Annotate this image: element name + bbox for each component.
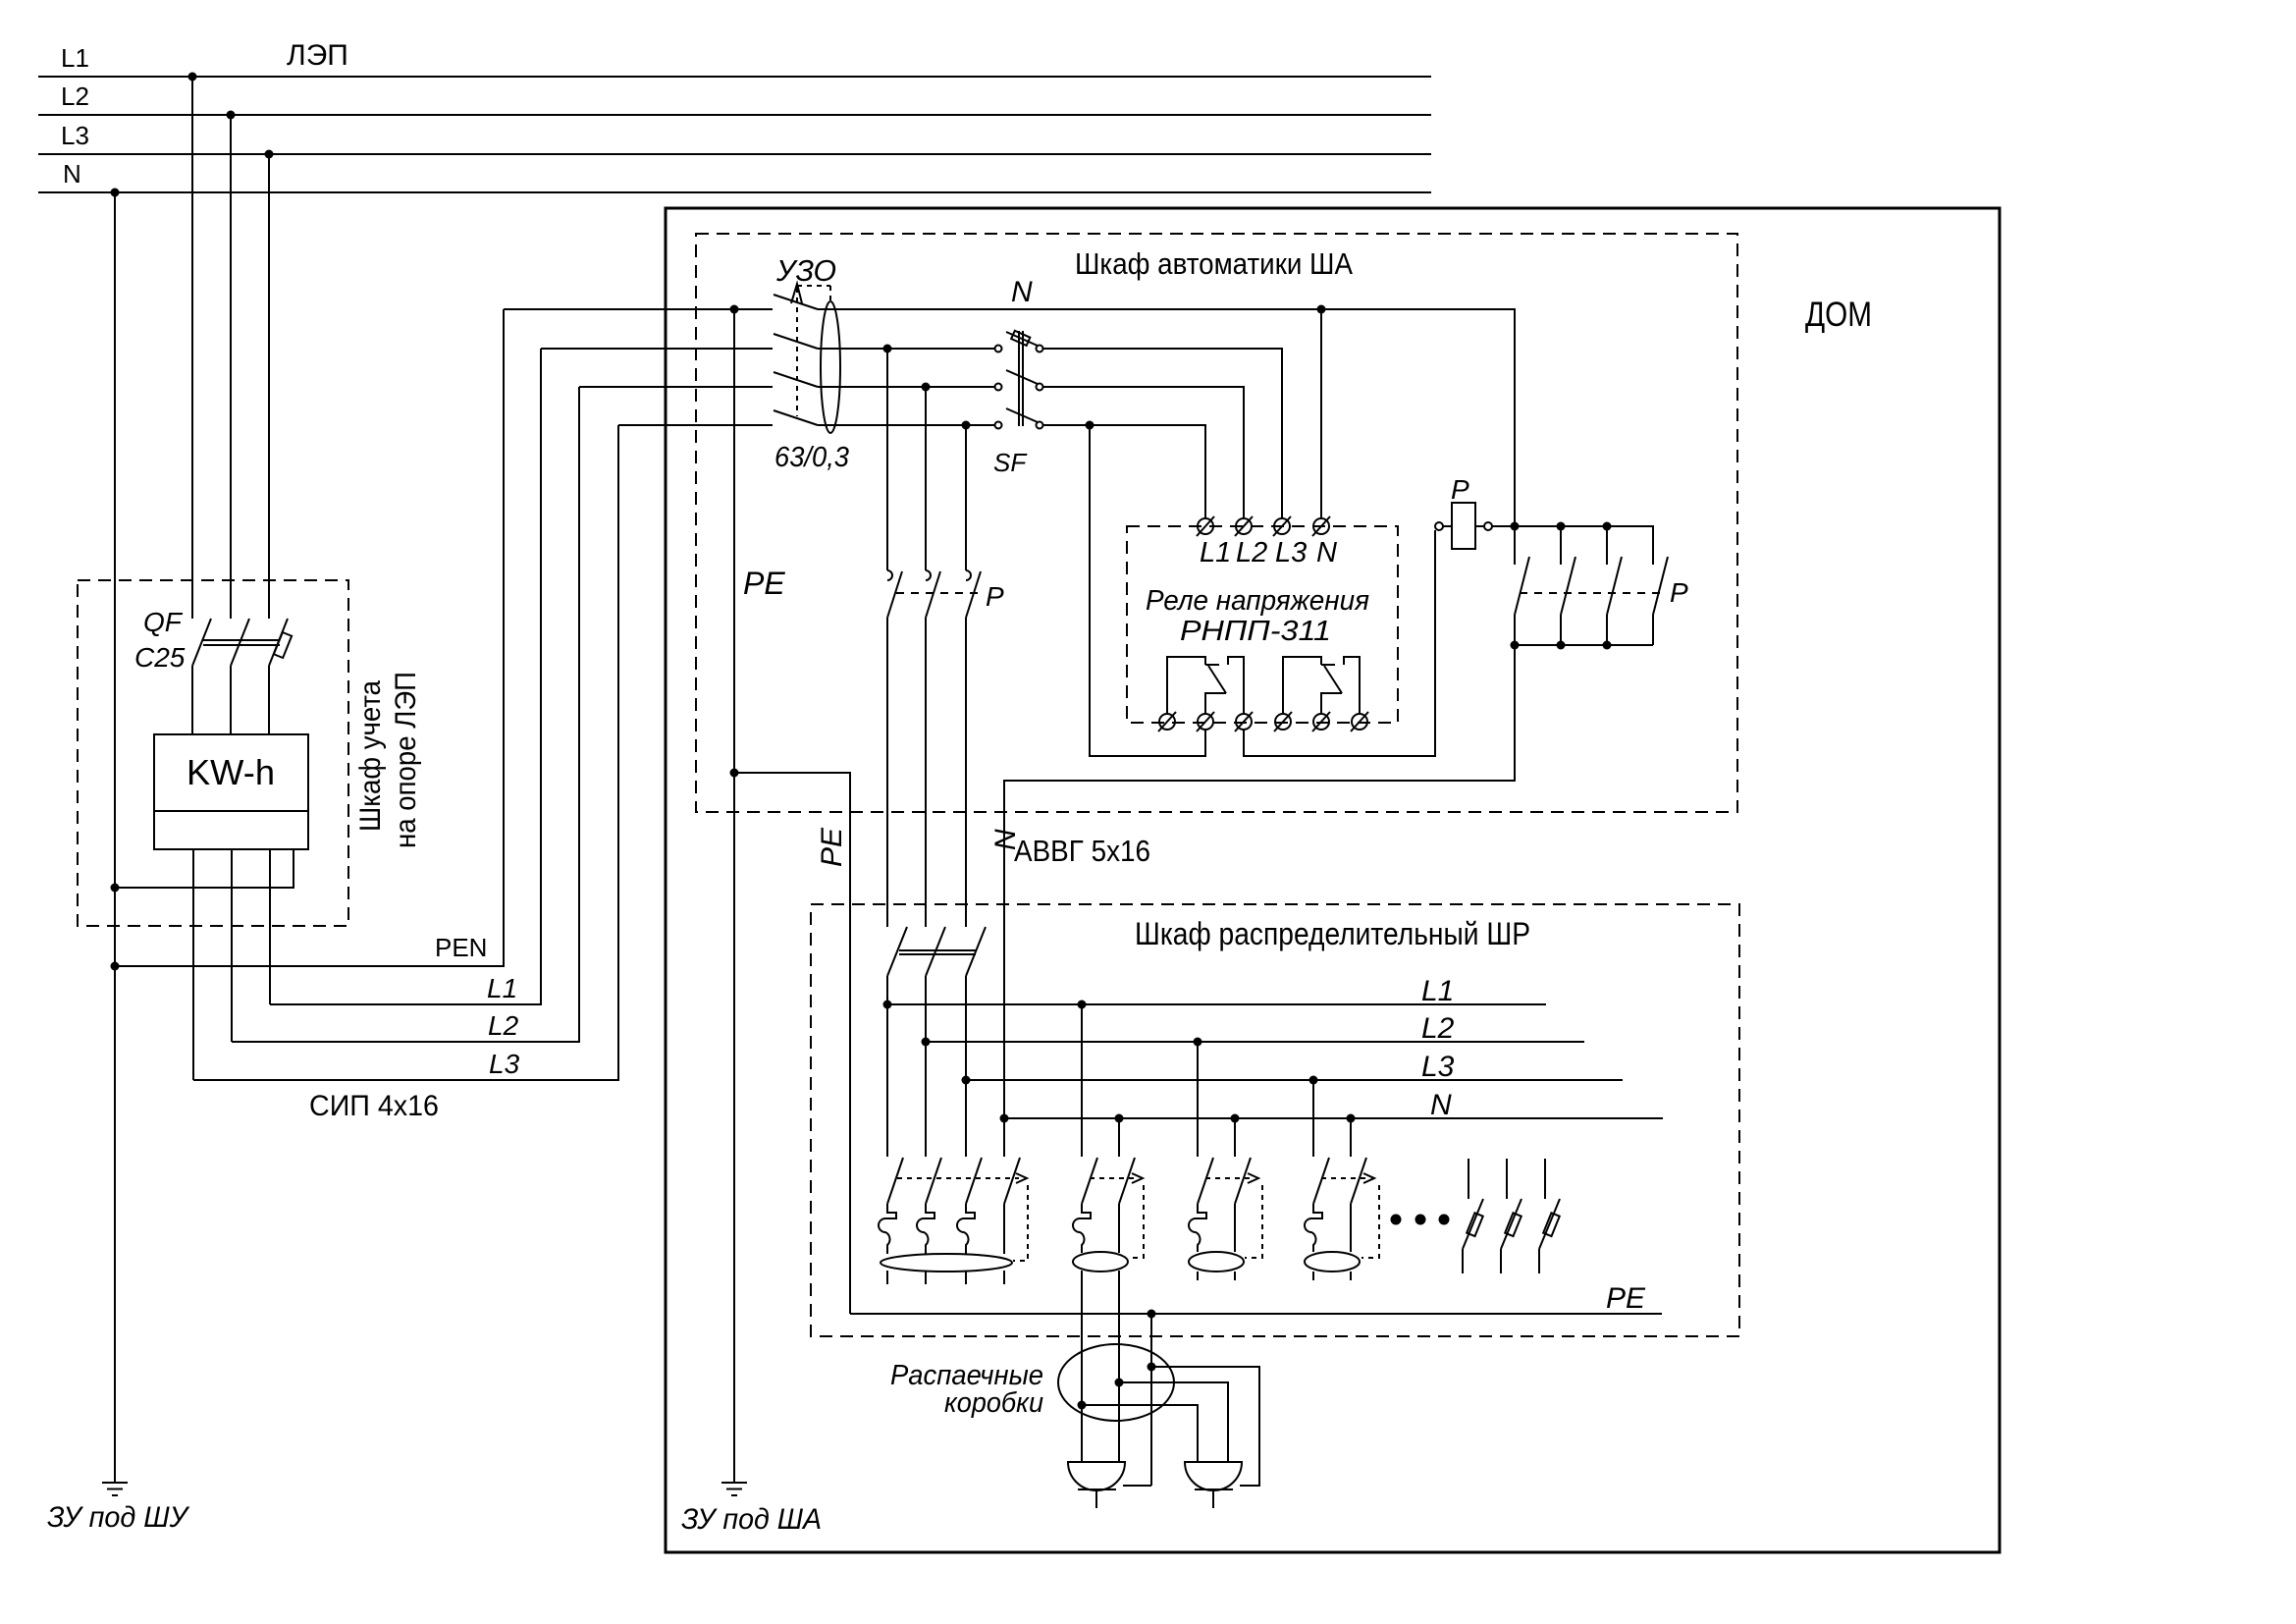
breaker QF2 pole1: [1073, 1004, 1097, 1253]
node L3 contact tap: [1086, 421, 1095, 430]
wire meter N stub: [115, 849, 294, 888]
wire QF pole2 to meter: [230, 666, 232, 734]
svg-text:коробки: коробки: [944, 1387, 1043, 1419]
wire lamp1 L feed: [1081, 1271, 1083, 1462]
svg-text:SF: SF: [993, 448, 1028, 477]
breaker QF2 trip dashed: [1090, 1177, 1135, 1179]
wire SF out L1: [1043, 349, 1282, 518]
RCD UZO pole4 blade: [774, 410, 818, 425]
RCD UZO pole2 blade: [774, 334, 818, 349]
terminal relay out 1: [1158, 712, 1176, 731]
relay RNPP-311 box: [1127, 526, 1398, 723]
breaker QF4 trip dashed: [1321, 1177, 1366, 1179]
switch SF pole1 left contact: [995, 346, 1002, 352]
wire meter out phase A: [192, 849, 194, 1080]
RCD UZO trip arrow: [791, 284, 802, 303]
RCD UZO toroid: [821, 301, 840, 433]
switch QS link bar: [899, 950, 976, 954]
svg-text:L2: L2: [1236, 537, 1267, 568]
terminal relay N top: [1312, 516, 1330, 536]
node L1 tap: [188, 73, 197, 81]
breaker QF3 pole2 N: [1235, 1118, 1251, 1280]
future switch 1: [1463, 1159, 1483, 1273]
breaker QF pole 1 blade: [192, 619, 211, 666]
contactor P contact 1: [1515, 526, 1529, 645]
wire L3 bypass lower: [965, 618, 967, 927]
svg-text:PEN: PEN: [435, 933, 487, 962]
wire L1 bypass vertical: [886, 349, 888, 570]
wire QF pole1 to meter: [191, 666, 193, 734]
wire L3 bypass vertical: [965, 425, 967, 570]
breaker QF4 trip arrow: [1363, 1173, 1374, 1183]
contactor coil P right terminal: [1484, 522, 1492, 530]
wire relay out3 to coil: [1244, 530, 1435, 756]
wire N to contactor: [1321, 309, 1515, 526]
svg-text:QF: QF: [143, 607, 184, 637]
bypass switch P pole2 blade: [926, 571, 940, 618]
wire N to relay terminal: [1320, 309, 1322, 518]
breaker QF4 pole2 N: [1351, 1118, 1366, 1280]
node contactor top 3: [1603, 522, 1612, 531]
switch SF pole3 right contact: [1037, 422, 1043, 429]
breaker QF link bar: [203, 640, 280, 645]
breaker QF2 trip arrow: [1132, 1173, 1143, 1183]
wire N feed to ShR: [1004, 645, 1515, 1118]
node junction L: [1078, 1401, 1087, 1410]
node contactor bottom 3: [1603, 641, 1612, 650]
breaker QF1 trip box dashed: [1013, 1185, 1028, 1261]
node bus N tap group2: [1115, 1114, 1124, 1123]
relay contact K1 common: [1205, 693, 1226, 714]
wire coil right lead: [1475, 525, 1484, 527]
relay contact K2 NO bracket: [1344, 657, 1360, 714]
node junction N: [1115, 1379, 1124, 1387]
breaker QF pole 3 blade: [269, 619, 288, 666]
terminal relay out 4: [1274, 712, 1292, 731]
breaker QF2 coil ellipse: [1073, 1252, 1128, 1272]
wire UZO input L1: [541, 348, 773, 350]
bypass switch P pole2 fixed contact: [926, 570, 931, 580]
svg-text:Шкаф учета: Шкаф учета: [354, 680, 387, 832]
node bus N left: [1000, 1114, 1009, 1123]
switch SF handle: [1011, 331, 1030, 346]
RCD UZO pole3 blade: [774, 372, 818, 387]
node L3 bypass tap: [962, 421, 971, 430]
breaker QF handle: [274, 632, 292, 658]
node L2 tap: [227, 111, 236, 120]
switch SF pole2 blade: [1006, 370, 1038, 384]
breaker QF4 trip box dashed: [1362, 1185, 1379, 1258]
switch SF link bar: [1019, 331, 1023, 426]
svg-text:Шкаф распределительный ШР: Шкаф распределительный ШР: [1135, 916, 1530, 951]
svg-text:Шкаф автоматики ША: Шкаф автоматики ША: [1075, 246, 1353, 281]
svg-text:ЗУ под ША: ЗУ под ША: [681, 1503, 822, 1536]
node bus L2 tap group3: [1194, 1038, 1202, 1047]
wire UZO input L2: [579, 386, 773, 388]
future switch 3: [1539, 1159, 1560, 1273]
wire coil left lead: [1443, 525, 1452, 527]
wire PE branch to ShR: [734, 773, 850, 1314]
terminal relay out 5: [1312, 712, 1330, 731]
wire lamp2 L branch: [1082, 1405, 1198, 1462]
wire PE bus ShR: [850, 1313, 1662, 1315]
breaker QF1 pole1: [879, 1004, 903, 1284]
wire lamp2 PE branch: [1151, 1367, 1259, 1486]
svg-text:Реле напряжения: Реле напряжения: [1146, 585, 1369, 617]
svg-text:ДОМ: ДОМ: [1805, 296, 1872, 334]
relay contact K2 NC tick: [1321, 664, 1335, 666]
meter KW-h box: [154, 734, 308, 849]
terminal relay out 2: [1197, 712, 1214, 731]
wire SF out L2: [1043, 387, 1244, 518]
breaker QF pole 2 blade: [231, 619, 249, 666]
wire UZO out L3: [818, 424, 994, 426]
breaker QF3 trip box dashed: [1245, 1185, 1262, 1258]
relay contact K2 NC bracket: [1283, 657, 1321, 714]
svg-text:АВВГ 5x16: АВВГ 5x16: [1014, 834, 1150, 868]
lamp EL1: [1068, 1462, 1125, 1508]
node contactor bottom 1: [1511, 641, 1520, 650]
contactor linkage dashed: [1520, 592, 1665, 594]
svg-text:СИП 4x16: СИП 4x16: [309, 1090, 439, 1122]
wire QF pole3 to meter: [268, 666, 270, 734]
terminal relay L1 top: [1197, 516, 1214, 536]
node PE branch: [730, 769, 739, 778]
RCD UZO trip linkage: [797, 286, 830, 416]
wire PE lamp drop: [1150, 1314, 1152, 1486]
svg-text:N: N: [63, 159, 81, 189]
bypass switch P pole3 blade: [966, 571, 981, 618]
ellipsis dots: [1391, 1215, 1450, 1225]
wire lamp2 N branch: [1119, 1382, 1228, 1462]
svg-text:KW-h: KW-h: [187, 752, 275, 792]
node L1 bypass tap: [883, 345, 892, 353]
switch SF pole3 left contact: [995, 422, 1002, 429]
wire UZO out L1: [818, 348, 994, 350]
switch QS pole3 blade: [966, 927, 986, 976]
contactor P contact 3: [1607, 526, 1622, 645]
bypass switch P linkage: [896, 592, 978, 594]
terminal relay out 3: [1235, 712, 1253, 731]
svg-text:L1: L1: [487, 973, 517, 1003]
house DOM box: [666, 208, 2000, 1552]
node bus L2 left: [922, 1038, 931, 1047]
wire QS pole1 lower: [886, 976, 888, 1004]
breaker QF1 pole2: [917, 1042, 941, 1284]
wire L2 bypass vertical: [925, 387, 927, 570]
svg-text:PE: PE: [1606, 1282, 1646, 1315]
wire L2 bypass lower: [925, 618, 927, 927]
contactor coil P left terminal: [1435, 522, 1443, 530]
node bus L3 left: [962, 1076, 971, 1085]
breaker QF3 pole1: [1189, 1042, 1213, 1280]
wire meter out phase C: [269, 849, 271, 1004]
breaker QF3 trip arrow: [1248, 1173, 1258, 1183]
wire SF out L3: [1043, 425, 1205, 518]
breaker QF2 pole2 N: [1119, 1118, 1135, 1253]
node meter N junction: [111, 884, 120, 893]
wire bus L1 ShR: [887, 1003, 1546, 1005]
wire L1 run: [270, 349, 541, 1004]
cabinet ShR box: [811, 904, 1739, 1336]
wire UZO input N: [504, 308, 773, 310]
ground ZU pod ShA: [721, 1483, 747, 1495]
svg-text:PE: PE: [743, 566, 785, 601]
node contactor bottom 2: [1557, 641, 1566, 650]
svg-text:L2: L2: [1421, 1012, 1455, 1045]
wire meter out phase B: [231, 849, 233, 1042]
svg-text:PE: PE: [816, 827, 848, 867]
svg-text:63/0,3: 63/0,3: [774, 442, 849, 473]
breaker QF2 trip box dashed: [1129, 1185, 1144, 1258]
bypass switch P pole1 fixed contact: [887, 570, 892, 580]
relay contact K2 blade: [1324, 666, 1342, 693]
breaker QF1 pole3: [957, 1080, 982, 1284]
svg-text:L1: L1: [1200, 537, 1231, 568]
terminal relay out 6: [1351, 712, 1368, 731]
svg-text:N: N: [1316, 537, 1337, 568]
svg-text:L1: L1: [1421, 975, 1454, 1007]
node junction PE: [1148, 1363, 1156, 1372]
wire QS pole2 lower: [925, 976, 927, 1042]
breaker QF1 pole4 N: [1004, 1118, 1020, 1284]
cabinet ShA box: [696, 234, 1737, 812]
wire bus N ShR: [1004, 1117, 1663, 1119]
wire lamp1 N feed: [1118, 1271, 1120, 1462]
junction box ellipse: [1058, 1344, 1174, 1421]
wire UZO input L3: [618, 424, 773, 426]
relay contact K1 NC tick: [1205, 664, 1219, 666]
node L2 bypass tap: [922, 383, 931, 392]
contactor P contact 4: [1653, 557, 1668, 645]
bypass switch P pole3 fixed contact: [966, 570, 971, 580]
node L3 tap: [265, 150, 274, 159]
metering cabinet box Shkaf ucheta: [78, 580, 348, 926]
breaker QF3 trip dashed: [1205, 1177, 1251, 1179]
switch SF pole2 left contact: [995, 384, 1002, 391]
svg-text:L1: L1: [61, 43, 89, 73]
node PE lamp tap: [1148, 1310, 1156, 1319]
svg-text:N: N: [1430, 1089, 1452, 1121]
wire QS pole3 lower: [965, 976, 967, 1080]
wire L3 to relay contact: [1090, 425, 1205, 756]
svg-text:N: N: [1011, 276, 1033, 308]
svg-text:Р: Р: [1670, 577, 1688, 608]
wire L1 bypass lower: [886, 618, 888, 927]
wire L3 drop to QF: [268, 154, 270, 619]
wire L2 run: [232, 387, 579, 1042]
breaker QF1 trip dashed: [897, 1177, 1019, 1179]
contactor P contact 2: [1561, 526, 1575, 645]
relay contact K1 NO bracket: [1228, 657, 1244, 714]
RCD UZO pole1 blade: [774, 295, 818, 309]
node PEN tap: [111, 962, 120, 971]
relay contact K1 blade: [1208, 666, 1226, 693]
meter KW-h divider: [154, 810, 308, 812]
breaker QF3 coil ellipse: [1189, 1252, 1244, 1272]
contactor coil P body: [1452, 503, 1475, 549]
node PE tap: [730, 305, 739, 314]
wire N bus: [38, 191, 1431, 193]
svg-text:Р: Р: [986, 581, 1004, 612]
switch SF pole1 blade: [1006, 332, 1038, 346]
svg-text:L3: L3: [1421, 1051, 1455, 1083]
wire lamp1 PE link: [1123, 1485, 1151, 1487]
wire L3 run: [193, 425, 618, 1080]
svg-text:L3: L3: [61, 121, 89, 150]
svg-text:L3: L3: [489, 1049, 520, 1079]
relay contact K2 common: [1321, 693, 1342, 714]
svg-text:L3: L3: [1275, 537, 1307, 568]
wire L1 drop to QF: [191, 77, 193, 619]
breaker QF1 coil ellipse: [881, 1254, 1012, 1272]
ground ZU pod ShU: [102, 1483, 128, 1495]
wire PE vertical: [733, 309, 735, 1483]
switch QS pole2 blade: [926, 927, 945, 976]
wire L2 bus: [38, 114, 1431, 116]
wire bus L2 ShR: [926, 1041, 1584, 1043]
svg-text:УЗО: УЗО: [775, 253, 836, 288]
svg-text:L2: L2: [61, 81, 89, 111]
wire UZO out L2: [818, 386, 994, 388]
node bus L1 tap group2: [1078, 1001, 1087, 1009]
svg-text:РНПП-311: РНПП-311: [1180, 616, 1331, 647]
node N tap: [111, 189, 120, 197]
node bus N tap group3: [1231, 1114, 1240, 1123]
lamp EL2: [1185, 1462, 1242, 1508]
wire L1 bus: [38, 76, 1431, 78]
node N to relay tap: [1317, 305, 1326, 314]
relay contact K1 NC bracket: [1167, 657, 1205, 714]
node bus L3 tap group4: [1309, 1076, 1318, 1085]
breaker QF1 trip arrow: [1016, 1173, 1027, 1183]
bypass switch P pole1 blade: [887, 571, 902, 618]
node contactor top 1: [1511, 522, 1520, 531]
switch SF pole3 blade: [1006, 408, 1038, 422]
wire bus L3 ShR: [966, 1079, 1623, 1081]
terminal relay L3 top: [1273, 516, 1291, 536]
node bus N tap group4: [1347, 1114, 1356, 1123]
breaker QF4 coil ellipse: [1305, 1252, 1360, 1272]
future switch 2: [1501, 1159, 1522, 1273]
wire L2 drop to QF: [230, 115, 232, 619]
node contactor top 2: [1557, 522, 1566, 531]
switch SF pole1 right contact: [1037, 346, 1043, 352]
wire PEN run: [115, 309, 504, 966]
svg-text:Р: Р: [1451, 474, 1469, 505]
breaker QF4 pole1: [1305, 1080, 1329, 1280]
wire L3 bus: [38, 153, 1431, 155]
svg-text:С25: С25: [134, 642, 186, 673]
svg-text:на опоре ЛЭП: на опоре ЛЭП: [390, 672, 422, 848]
svg-text:ЗУ под ШУ: ЗУ под ШУ: [47, 1501, 190, 1534]
wire N drop to ground: [114, 192, 116, 1483]
wire contactor top bus: [1492, 526, 1653, 565]
node bus L1 left: [883, 1001, 892, 1009]
svg-text:L2: L2: [488, 1010, 519, 1041]
switch SF pole2 right contact: [1037, 384, 1043, 391]
svg-text:ЛЭП: ЛЭП: [287, 39, 348, 72]
wire contactor bottom bus: [1515, 644, 1653, 646]
terminal relay L2 top: [1235, 516, 1253, 536]
wire UZO out N: [818, 308, 1321, 310]
switch QS pole1 blade: [887, 927, 907, 976]
